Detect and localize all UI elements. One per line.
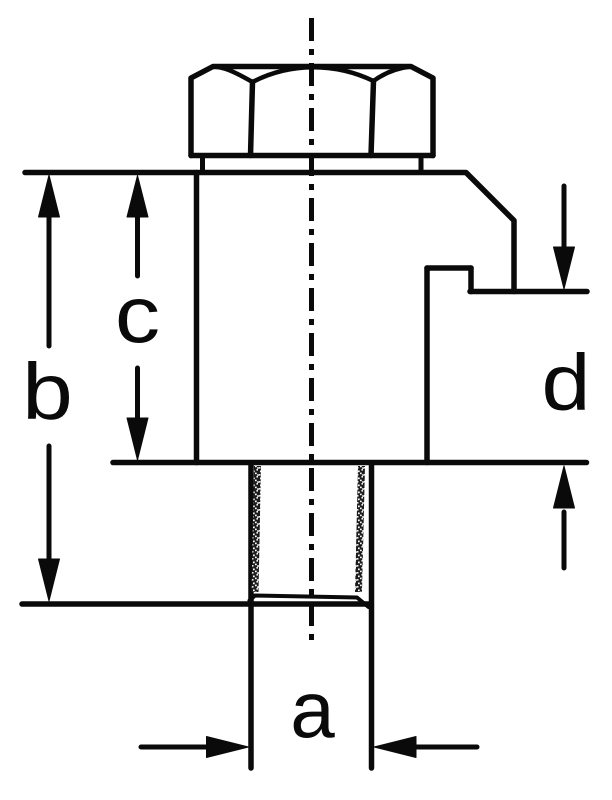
hex head left chamfer arc — [213, 67, 253, 83]
top surface line with right chamfer — [25, 173, 514, 292]
dimension a right arrowhead — [374, 737, 416, 758]
svg-text:d: d — [542, 338, 591, 427]
dimension b arrow line — [47, 212, 52, 564]
dimension c arrow line — [135, 212, 140, 420]
dimension c lower arrowhead — [127, 418, 148, 460]
dimension a left arrowhead — [207, 737, 249, 758]
clamp body bottom line — [113, 460, 587, 466]
notch right edge — [468, 268, 474, 292]
svg-text:c: c — [115, 271, 160, 360]
washer right edge — [419, 156, 424, 171]
dimension c upper arrowhead — [127, 176, 148, 218]
dimension b upper arrowhead — [39, 175, 60, 217]
dimension a line right segment — [414, 745, 477, 750]
hex head right chamfer arc — [374, 67, 412, 82]
svg-text:a: a — [290, 665, 335, 754]
dimension a line left segment — [141, 745, 210, 750]
stud thread texture left band — [252, 466, 262, 592]
threaded stud right edge / extension line — [369, 464, 375, 768]
dimension d upper arrow — [562, 186, 567, 252]
dimension d upper arrowhead — [554, 247, 575, 289]
hex head bottom edge — [191, 153, 433, 159]
dimension b lower arrowhead — [39, 559, 60, 601]
hex head middle chamfer arc — [253, 67, 374, 82]
dimension d lower arrow — [562, 512, 567, 568]
slot surface line (d top reference) — [470, 289, 587, 295]
threaded stud left edge / extension line — [248, 464, 254, 768]
bottom reference line (b lower extent) — [22, 601, 371, 607]
clamp body left edge — [194, 173, 200, 463]
svg-text:b: b — [22, 347, 73, 437]
washer left edge — [200, 156, 205, 171]
hex head right facet line — [371, 81, 374, 156]
stud end chamfer line — [250, 596, 369, 608]
centerline (dash-dot axis) — [309, 18, 314, 648]
notch top edge — [427, 265, 471, 271]
hex head outline — [191, 67, 433, 156]
hex head left facet line — [251, 82, 253, 156]
dimension d lower arrowhead — [554, 466, 575, 508]
stud thread texture right band — [355, 466, 365, 592]
clamp body right edge — [424, 268, 430, 463]
